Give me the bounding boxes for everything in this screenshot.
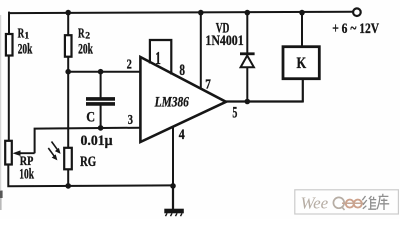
watermark Q: [333, 197, 344, 208]
ground symbol: [164, 209, 184, 214]
terminal: +6~12V open circle: [353, 8, 361, 16]
wire: output pin 5 to relay corner: [226, 100, 303, 102]
resistor R2: [65, 35, 72, 57]
svg-text:Wee: Wee: [301, 194, 329, 213]
capacitor C top lead: [100, 72, 102, 98]
node: C bottom junction: [98, 125, 104, 131]
wire: pin 7 to rail: [200, 13, 202, 89]
svg-text:RG: RG: [80, 154, 96, 170]
wire: rail to diode cathode: [246, 13, 248, 53]
wire: top supply rail: [9, 12, 353, 13]
watermark oo: [346, 200, 354, 208]
wire: rail to relay top: [301, 13, 303, 47]
photoresistor RG body: [64, 148, 72, 170]
wire: pin1 to pin8 loop: [150, 40, 171, 75]
svg-text:20k: 20k: [78, 41, 93, 57]
svg-text:1: 1: [24, 31, 29, 42]
watermark glyph 维: [362, 196, 376, 209]
svg-text:+ 6 ~ 12V: + 6 ~ 12V: [332, 21, 379, 37]
svg-text:1N4001: 1N4001: [205, 33, 243, 49]
node: pin 7 on rail: [198, 10, 204, 16]
wire: node A down to RG top (crosses pin-3 wire): [67, 72, 69, 148]
watermark glyph 库: [377, 194, 389, 210]
node: diode bottom on output wire: [245, 99, 251, 105]
svg-text:C: C: [86, 109, 95, 125]
relay K box: [283, 47, 319, 79]
wire: R2 bottom to node A: [67, 57, 69, 72]
svg-text:K: K: [297, 55, 307, 72]
diode VD symbol: [240, 52, 255, 55]
node: pin4 / ground rail junction: [170, 183, 176, 189]
node: C top junction: [98, 69, 104, 75]
capacitor C plates: [86, 97, 115, 101]
wire: RP wiper up and right to pin 3: [35, 128, 141, 154]
wire: pin 4 down to ground rail: [172, 127, 174, 187]
node: relay top on rail: [299, 10, 305, 16]
wire: diode anode to output wire: [246, 67, 248, 101]
photoresistor RG light arrows: [52, 142, 60, 152]
svg-text:3: 3: [128, 113, 133, 128]
svg-text:2: 2: [127, 58, 132, 73]
wire: RP bottom to ground rail corner: [8, 165, 173, 187]
wire: ground rail to ground symbol: [172, 186, 174, 209]
watermark box: [295, 190, 399, 214]
svg-text:1: 1: [155, 48, 161, 68]
wire: RG bottom to ground rail: [67, 170, 69, 186]
wire: rail to R1 top: [8, 12, 10, 35]
node: RG / ground rail junction: [65, 183, 71, 189]
svg-text:10k: 10k: [19, 166, 34, 182]
svg-text:7: 7: [205, 78, 211, 93]
scan artifact: bottom-left smudge: [0, 191, 3, 199]
node: diode top on rail: [245, 10, 251, 16]
wire: pin 2 input: [68, 71, 140, 73]
svg-text:5: 5: [232, 105, 237, 122]
node A: R2 / pin2 junction: [65, 69, 71, 75]
watermark strike line: [342, 202, 364, 204]
capacitor C bottom lead: [100, 106, 102, 128]
wire: R1 bottom to RP top: [8, 56, 10, 142]
op-amp U1 LM386 triangle: [140, 57, 226, 142]
node: R2 top on rail: [65, 10, 71, 16]
svg-text:8: 8: [179, 62, 185, 79]
wire: rail to R2 top: [67, 13, 69, 36]
resistor R1: [6, 34, 13, 56]
svg-text:LM386: LM386: [154, 94, 190, 110]
svg-text:0.01μ: 0.01μ: [81, 133, 114, 149]
potentiometer RP wiper arrow: [16, 152, 35, 154]
potentiometer RP body: [5, 141, 12, 165]
scan artifact: left edge line: [0, 15, 2, 190]
svg-text:R: R: [18, 26, 25, 41]
svg-text:2: 2: [85, 30, 90, 41]
svg-text:4: 4: [179, 127, 185, 143]
svg-text:20k: 20k: [18, 42, 33, 58]
svg-text:R: R: [78, 26, 85, 41]
wire: relay bottom lead to output wire: [302, 79, 304, 103]
